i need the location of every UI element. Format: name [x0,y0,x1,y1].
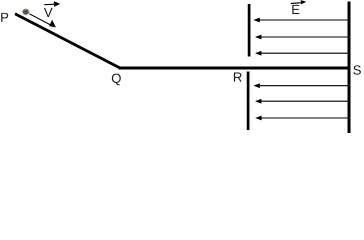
field arrow 5 [255,99,348,104]
field arrow 4 [253,83,347,88]
velocity arrow along incline [29,14,56,28]
field arrow 6 [255,116,347,121]
horizontal wire Q-S [119,67,350,70]
field arrow 1 [253,18,347,23]
label V [44,8,53,17]
label P [1,13,8,22]
left plate top segment (above wire, at R) [248,4,251,57]
particle ball at P [22,9,29,15]
label S [353,65,361,74]
label E [292,5,299,14]
field arrow 3 [255,51,348,56]
incline wire P-Q [15,14,120,68]
label R [234,73,242,82]
field arrow 2 [255,35,348,40]
right plate at S [348,2,351,134]
left plate bottom segment (below wire, at R) [247,72,250,131]
vector arrow over V [44,1,60,7]
vector arrow over E [291,0,307,4]
label Q [112,74,121,86]
